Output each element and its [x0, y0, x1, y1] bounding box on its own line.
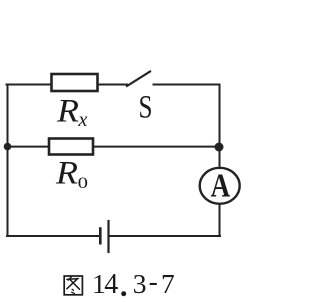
svg-text:4: 4	[104, 269, 118, 300]
svg-text:-: -	[149, 266, 158, 297]
svg-text:7: 7	[161, 268, 175, 299]
svg-text:S: S	[139, 89, 153, 125]
svg-text:3: 3	[133, 268, 147, 299]
svg-text:x: x	[78, 109, 88, 131]
svg-text:R: R	[55, 156, 78, 192]
svg-text:0: 0	[78, 175, 89, 192]
svg-text:A: A	[211, 168, 231, 205]
svg-text:R: R	[56, 94, 79, 130]
